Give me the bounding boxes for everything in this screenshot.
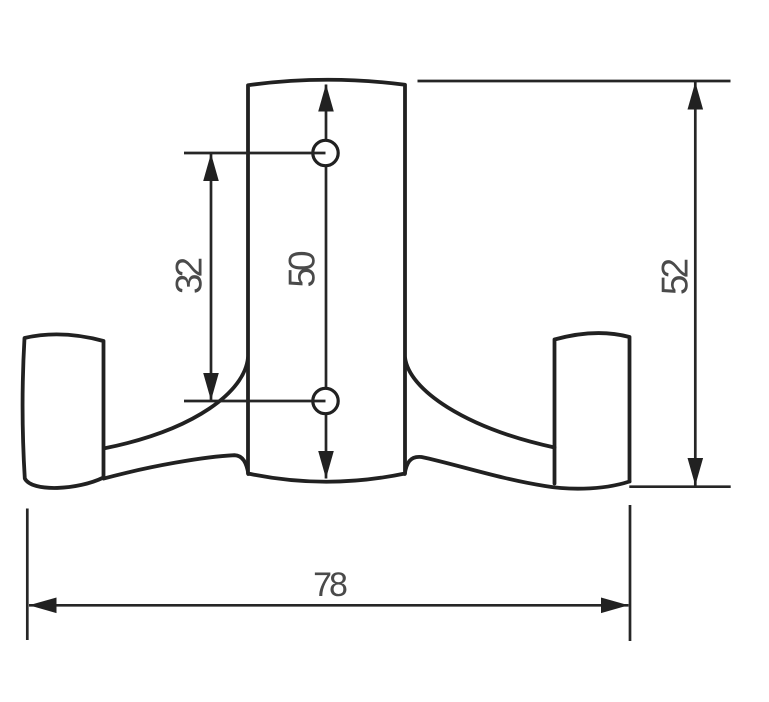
- arrow 32 down: [203, 373, 219, 401]
- 78 left extension line: [26, 509, 29, 641]
- svg-text:32: 32: [168, 259, 209, 295]
- right knob: [555, 333, 630, 483]
- 52 dim line: [694, 82, 697, 486]
- 78 dim line: [29, 604, 629, 607]
- 78 right extension line: [629, 505, 632, 641]
- left hook arm lower curve: [104, 455, 249, 478]
- top hole: [313, 140, 338, 165]
- arrow 78 left: [29, 598, 57, 614]
- hole extension line bottom: [184, 400, 326, 403]
- right hook arm lower curve: [405, 457, 630, 489]
- dimension graphics: [325, 85, 328, 479]
- left knob: [23, 334, 104, 488]
- 50 dim line (behind holes): [325, 85, 328, 479]
- hole extension line top: [184, 152, 326, 155]
- svg-text:78: 78: [313, 566, 347, 604]
- center plate: [248, 80, 405, 482]
- 32 dim line: [210, 153, 213, 401]
- svg-text:50: 50: [281, 251, 322, 288]
- arrow 50 up: [318, 84, 334, 112]
- right hook arm upper curve: [405, 358, 555, 448]
- arrow 32 up: [203, 154, 219, 182]
- svg-text:52: 52: [654, 260, 695, 296]
- 52 top extension line: [418, 80, 731, 83]
- arrow 52 up: [688, 82, 704, 110]
- arrow 50 down: [318, 451, 334, 479]
- left hook arm upper curve: [104, 358, 249, 449]
- arrow 78 right: [601, 598, 629, 614]
- arrow 52 down: [688, 458, 704, 486]
- bottom hole: [313, 388, 338, 413]
- 52 bottom extension line: [629, 485, 730, 488]
